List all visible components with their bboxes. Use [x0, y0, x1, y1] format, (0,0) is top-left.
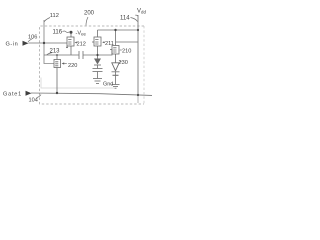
svg-text:116: 116	[53, 30, 63, 36]
svg-text:114: 114	[120, 16, 130, 22]
svg-text:112: 112	[50, 13, 59, 19]
svg-text:G-in: G-in	[6, 41, 19, 47]
svg-text:Gnd: Gnd	[103, 82, 113, 88]
svg-text:213: 213	[50, 49, 61, 55]
svg-text:212: 212	[77, 42, 86, 48]
svg-text:-Vee: -Vee	[76, 31, 87, 37]
svg-text:230: 230	[119, 60, 128, 66]
svg-text:106: 106	[28, 35, 37, 41]
svg-text:104: 104	[29, 98, 38, 104]
svg-text:210: 210	[122, 49, 131, 55]
svg-text:200: 200	[84, 11, 95, 17]
svg-text:220: 220	[68, 63, 77, 69]
svg-text:Vdd: Vdd	[137, 8, 146, 14]
svg-text:211: 211	[105, 41, 114, 47]
svg-text:Gate1: Gate1	[3, 92, 22, 98]
